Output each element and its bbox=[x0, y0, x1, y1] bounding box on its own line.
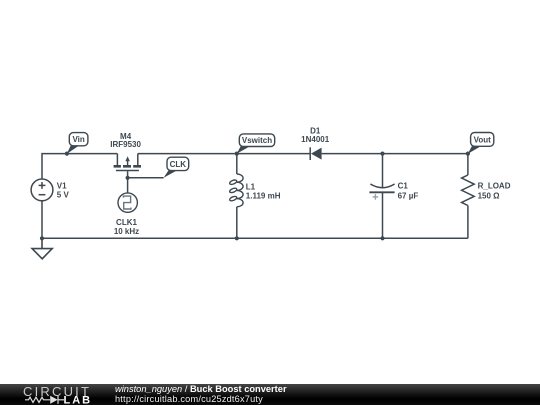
CircuitLab logo bbox=[0, 384, 100, 405]
wire L1 branch bottom bbox=[236, 207, 238, 239]
node flag CLK bbox=[164, 157, 189, 178]
ground bbox=[32, 238, 52, 258]
junction dot Vin node bbox=[65, 152, 69, 156]
junction dot Vswitch node bbox=[235, 152, 239, 156]
wire top rail left segment bbox=[42, 154, 117, 179]
junction dot C1 top bbox=[380, 152, 384, 156]
junction dot gate node bbox=[126, 176, 130, 180]
wire bottom ground rail bbox=[42, 237, 468, 239]
footer credits text bbox=[115, 385, 287, 404]
resistor R_LOAD bbox=[462, 175, 475, 206]
diode D1 bbox=[310, 147, 321, 160]
wire C1 branch top bbox=[382, 154, 384, 188]
node flag Vswitch bbox=[237, 134, 275, 154]
junction dot ground left bbox=[40, 236, 44, 240]
voltage source V1 bbox=[31, 179, 53, 201]
svg-text:IRF9530: IRF9530 bbox=[110, 140, 141, 149]
svg-text:Vin: Vin bbox=[72, 135, 84, 144]
wire L1 branch top bbox=[236, 154, 238, 174]
svg-text:Vswitch: Vswitch bbox=[242, 136, 272, 145]
svg-text:L1: L1 bbox=[246, 182, 256, 191]
capacitor C1 bbox=[369, 184, 394, 200]
junction dot C1 bottom bbox=[380, 236, 384, 240]
node flag Vin bbox=[67, 133, 88, 154]
inductor L1 bbox=[229, 174, 243, 207]
clock source CLK1 bbox=[118, 193, 137, 212]
wire C1 branch bottom bbox=[382, 192, 384, 238]
wire gate junction to CLK flag bbox=[128, 177, 164, 179]
junction dot Vout node bbox=[466, 152, 470, 156]
svg-text:CLK: CLK bbox=[170, 160, 187, 169]
svg-text:Vout: Vout bbox=[474, 135, 492, 144]
svg-text:CLK1: CLK1 bbox=[116, 218, 137, 227]
wire R_LOAD branch bottom bbox=[467, 206, 469, 239]
wire top rail from diode to Vout corner bbox=[322, 153, 468, 155]
footer bar bbox=[0, 384, 540, 405]
svg-text:67 µF: 67 µF bbox=[398, 191, 419, 200]
node flag Vout bbox=[468, 133, 494, 154]
svg-text:10 kHz: 10 kHz bbox=[114, 227, 139, 236]
svg-text:V1: V1 bbox=[57, 182, 67, 191]
wire V1 bottom to ground rail bbox=[41, 201, 43, 238]
svg-text:150 Ω: 150 Ω bbox=[478, 191, 501, 200]
svg-text:C1: C1 bbox=[398, 181, 409, 190]
svg-text:1.119 mH: 1.119 mH bbox=[246, 191, 281, 200]
svg-text:1N4001: 1N4001 bbox=[301, 135, 330, 144]
wire M4 gate to junction and CLK1 bbox=[127, 171, 129, 193]
svg-text:LAB: LAB bbox=[64, 394, 93, 405]
wire top rail right segment (Vswitch node) bbox=[138, 153, 310, 155]
wire R_LOAD branch top bbox=[467, 154, 469, 175]
svg-text:R_LOAD: R_LOAD bbox=[478, 181, 511, 190]
transistor M4 bbox=[114, 154, 141, 171]
junction dot L1 bottom bbox=[235, 236, 239, 240]
svg-text:5 V: 5 V bbox=[57, 190, 70, 199]
